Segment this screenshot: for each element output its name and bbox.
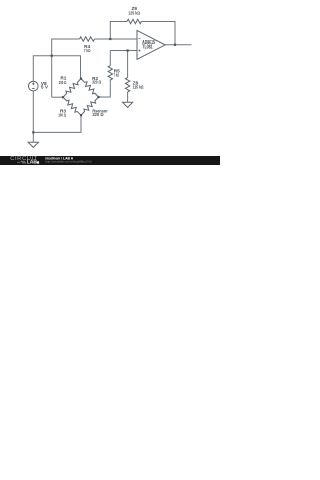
voltage source V8 xyxy=(29,81,39,91)
svg-text:TL081: TL081 xyxy=(142,44,152,50)
node junction at 63,97.2 xyxy=(62,96,64,98)
svg-text:320 Ω: 320 Ω xyxy=(92,112,103,118)
wire to bridge left vertex xyxy=(52,96,63,98)
svg-text:http://circuitlab.com/c/xhqb58: http://circuitlab.com/c/xhqb58ky17s3 xyxy=(45,160,92,164)
svg-text:100 Ω: 100 Ω xyxy=(58,112,66,118)
wire Z8 top xyxy=(127,51,129,78)
resistor Z9 xyxy=(127,19,141,23)
svg-text:7 kΩ: 7 kΩ xyxy=(84,48,91,54)
node junction at 175,44.8 xyxy=(174,44,176,46)
op-amp AD8615/TL081 xyxy=(137,30,165,59)
svg-text:Z9: Z9 xyxy=(131,6,137,12)
node junction at 33.3,132.4 xyxy=(32,131,34,133)
footer bar xyxy=(0,156,220,165)
node junction at 81,115.2 xyxy=(80,114,82,116)
wire op-amp output xyxy=(165,44,192,46)
wire R5 top xyxy=(109,51,111,66)
svg-text:125 kΩ: 125 kΩ xyxy=(133,84,144,90)
resistor Z8 xyxy=(125,78,129,93)
CircuitLab logo xyxy=(10,156,38,162)
svg-text:100 Ω: 100 Ω xyxy=(59,80,67,86)
svg-text:LAB: LAB xyxy=(27,160,38,165)
ground under Z8 xyxy=(123,102,133,107)
wire V8+ to bridge top xyxy=(33,56,80,82)
resistor R3 (bridge bottom-left) xyxy=(63,97,81,115)
ground under V8 xyxy=(28,142,38,147)
resistor R4 xyxy=(80,37,95,41)
footer text xyxy=(45,157,73,161)
wire V8- to bridge bottom xyxy=(33,91,81,133)
svg-text:R1: R1 xyxy=(60,76,66,82)
node junction at 110.3,39.0 xyxy=(109,38,111,40)
svg-text:5 V: 5 V xyxy=(41,85,49,91)
resistor R1 (bridge top-left) xyxy=(63,79,81,98)
resistor R5 xyxy=(108,66,112,81)
wire Z8 bottom xyxy=(127,92,129,102)
wire R5 bottom to bridge right xyxy=(99,80,111,97)
svg-text:320 Ω: 320 Ω xyxy=(92,80,101,86)
node junction at 127.6,50.5 xyxy=(127,49,129,51)
resistor R2 (bridge top-right) xyxy=(81,79,99,97)
wire non-inverting input xyxy=(110,50,137,52)
node junction at 81,78.6 xyxy=(80,78,82,80)
wire left riser / op-amp inverting input line xyxy=(52,39,80,97)
wire ground stem left xyxy=(32,132,34,142)
node junction at 51.7,55.7 xyxy=(51,55,53,57)
node junction at 98.5,97.0 xyxy=(97,96,99,98)
wire feedback Z9 xyxy=(110,22,127,40)
resistor Rsensor (bridge bottom-right) xyxy=(81,97,99,115)
svg-text:125 kΩ: 125 kΩ xyxy=(128,10,140,16)
svg-text:7 kΩ: 7 kΩ xyxy=(114,72,120,78)
